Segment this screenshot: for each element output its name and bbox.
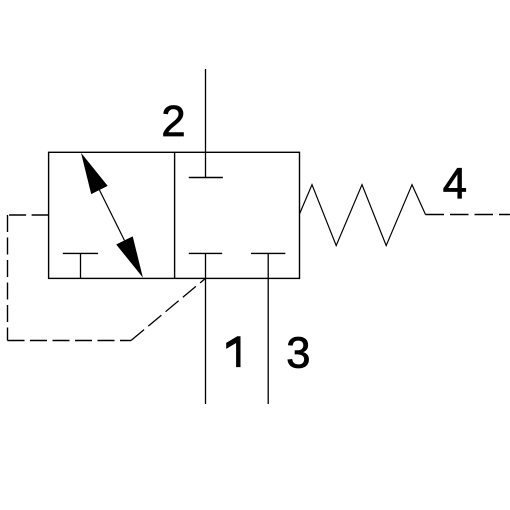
- svg-text:3: 3: [286, 329, 310, 377]
- svg-text:2: 2: [161, 98, 185, 146]
- svg-text:4: 4: [443, 161, 467, 209]
